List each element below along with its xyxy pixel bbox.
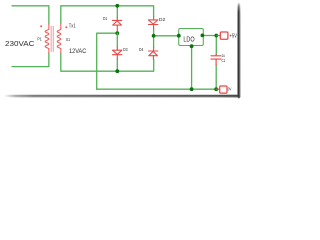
phase dot primary <box>40 25 42 27</box>
svg-text:+5V: +5V <box>229 34 237 40</box>
svg-text:LDO: LDO <box>183 35 195 44</box>
LDO pin dot input <box>177 34 181 38</box>
wire LDO output to +5V node <box>203 35 216 37</box>
wire D1 top branch <box>116 6 118 18</box>
node +5V junction <box>214 34 218 38</box>
frame shadow right soft outer edge <box>239 4 242 98</box>
svg-text:P1: P1 <box>37 37 42 43</box>
wire +5V node down to C1 <box>215 36 217 55</box>
wire LDO gnd down to rail <box>191 46 193 89</box>
svg-text:Tx1: Tx1 <box>69 23 76 29</box>
wire primary bottom <box>12 53 49 66</box>
op-amp/regulator U1 LDO box <box>179 29 204 46</box>
frame shadow bottom soft upper edge <box>5 94 238 97</box>
wire node D down to D4 <box>153 36 155 48</box>
port +5V square <box>220 32 228 39</box>
wire D3 bottom to y71 wire <box>116 59 118 71</box>
diode D2 <box>148 17 157 29</box>
diode D1 <box>112 18 121 32</box>
wire C1 bottom to rail <box>215 66 217 90</box>
port 0V square <box>220 86 227 93</box>
svg-text:S1: S1 <box>66 37 70 43</box>
node: top rail junction <box>115 4 119 8</box>
frame shadow right core <box>238 2 240 98</box>
wire secondary top + top rail to D2 <box>61 6 154 24</box>
capacitor C1 <box>211 54 221 65</box>
frame shadow right soft inner edge <box>236 3 239 97</box>
frame shadow bottom soft lower edge <box>6 96 239 99</box>
wire primary top: left end to transformer <box>12 6 49 24</box>
transformer core <box>50 26 52 51</box>
node LDO-gnd/rail junction <box>190 87 194 91</box>
wire node B left branch down to bottom rail corner <box>97 33 118 89</box>
port 0V pin <box>216 88 220 90</box>
node y71 junction <box>115 69 119 73</box>
wire D1 bottom to node B <box>116 31 118 33</box>
transformer Tx1 primary winding <box>48 24 50 29</box>
frame shadow bottom core <box>4 95 240 97</box>
svg-text:C1: C1 <box>222 58 226 64</box>
svg-text:D2: D2 <box>159 17 166 22</box>
node B junction <box>115 31 119 35</box>
svg-text:0V: 0V <box>228 87 232 93</box>
node C1/rail junction <box>214 87 218 91</box>
wire secondary bottom across to D4 <box>61 53 154 71</box>
svg-text:230VAC: 230VAC <box>5 41 35 48</box>
LDO pin dot gnd <box>190 44 194 48</box>
wire D2 bottom to node D <box>153 29 155 36</box>
wire node B down to D3 <box>116 33 118 47</box>
diode D3 <box>113 47 122 59</box>
svg-text:D3: D3 <box>123 47 128 52</box>
LDO pin dot output <box>201 34 205 38</box>
svg-text:12VAC: 12VAC <box>69 48 87 55</box>
port +5V pin <box>216 35 220 37</box>
node D junction <box>152 34 156 38</box>
svg-text:D4: D4 <box>139 47 144 52</box>
wire node D to LDO input <box>154 35 179 37</box>
transformer Tx1 secondary winding <box>60 24 62 30</box>
wire bottom rail <box>97 88 217 90</box>
diode D4 <box>148 48 157 60</box>
svg-text:D1: D1 <box>103 16 108 21</box>
phase dot secondary <box>65 26 67 28</box>
